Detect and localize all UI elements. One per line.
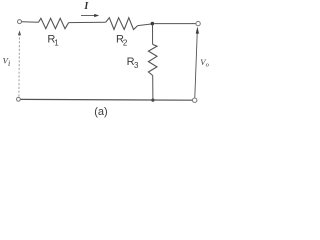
Vo arrow <box>195 27 199 98</box>
resistor R1 <box>38 18 68 28</box>
label Vi <box>3 56 11 68</box>
wire <box>138 24 152 26</box>
junction node top <box>151 22 155 26</box>
wire <box>152 76 154 100</box>
svg-text:1: 1 <box>54 39 59 48</box>
label Vo <box>200 57 209 69</box>
bottom wire <box>20 98 192 101</box>
svg-text:i: i <box>8 59 10 68</box>
resistor R2 <box>106 18 138 30</box>
junction node bottom <box>151 99 154 102</box>
wire <box>22 21 39 24</box>
svg-text:3: 3 <box>134 61 139 70</box>
terminal bottom-left <box>17 97 21 101</box>
svg-text:(a): (a) <box>94 106 107 118</box>
terminal top-right <box>196 21 200 25</box>
current arrow I <box>81 14 99 17</box>
svg-text:2: 2 <box>123 39 128 48</box>
label R1 <box>47 33 59 47</box>
wire <box>152 25 154 45</box>
terminal top-left <box>18 20 22 24</box>
terminal bottom-right <box>193 98 197 102</box>
wire <box>154 23 196 25</box>
Vi arrow <box>18 30 21 96</box>
wire <box>69 21 106 23</box>
svg-text:I: I <box>83 1 89 12</box>
label R2 <box>116 33 128 47</box>
svg-text:o: o <box>206 61 210 68</box>
label R3 <box>127 56 139 70</box>
resistor R3 <box>148 44 157 75</box>
